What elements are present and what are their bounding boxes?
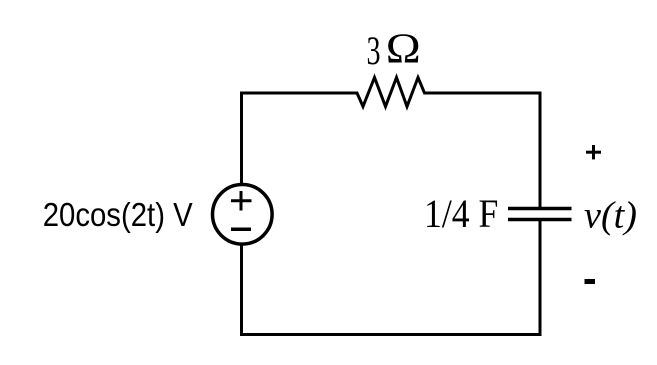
svg-text:v(t): v(t) xyxy=(584,195,637,237)
svg-text:1/4 F: 1/4 F xyxy=(424,191,498,236)
svg-text:3: 3 xyxy=(367,28,381,73)
svg-text:20cos(2t) V: 20cos(2t) V xyxy=(43,196,193,233)
svg-text:Ω: Ω xyxy=(386,27,421,73)
